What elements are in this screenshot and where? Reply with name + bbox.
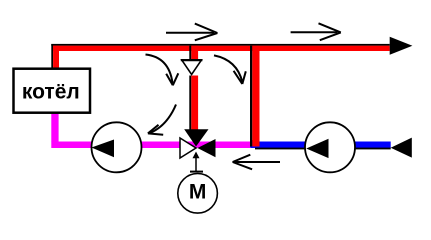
- wire boiler return magenta drop: [51, 114, 58, 142]
- wire boiler riser red pipe: [53, 46, 59, 68]
- pump P2 circle: [305, 122, 355, 172]
- wire bypass drop pipe upper black edge: [189, 46, 191, 60]
- arrowhead cold return inlet: [391, 138, 412, 158]
- flow arrow bottom left-pointing: [233, 155, 280, 170]
- svg-text:М: М: [189, 181, 207, 204]
- wire second riser red over junction: [250, 140, 252, 147]
- wire cold return black bottom edge: [255, 148, 391, 150]
- mixing valve top port triangle: [184, 129, 208, 146]
- motor M circle: [178, 174, 218, 214]
- curved arrow left of check valve: [146, 55, 179, 86]
- arrowhead supply outlet: [390, 37, 413, 55]
- wire boiler riser black edge: [51, 44, 53, 68]
- wire supply top black edge: [51, 44, 389, 46]
- curved arrow right of check valve: [214, 55, 246, 84]
- pump P1 impeller triangle: [92, 140, 115, 158]
- wire second riser red: [252, 46, 259, 147]
- wire bypass drop pipe lower red: [191, 76, 198, 132]
- check valve top bar: [181, 59, 203, 61]
- flow arrow top right: [291, 23, 341, 40]
- curved arrow valve to pump: [148, 105, 176, 135]
- flow arrow top middle: [166, 24, 217, 41]
- check valve: [182, 60, 202, 74]
- wire bypass drop pipe upper red: [191, 46, 198, 60]
- pump P1 circle: [92, 122, 142, 172]
- wire supply top red pipe: [53, 46, 390, 51]
- mixing valve stem arrow: [193, 152, 200, 159]
- svg-text:котёл: котёл: [22, 81, 80, 104]
- wire cold return blue pipe: [250, 142, 390, 149]
- mixing valve left port triangle: [180, 138, 196, 158]
- wire bypass drop pipe lower black edge: [189, 76, 191, 132]
- boiler box: [14, 69, 91, 113]
- mixing valve right port triangle: [198, 139, 216, 157]
- pump P2 impeller triangle: [306, 139, 328, 158]
- wire second riser black edge: [250, 46, 252, 147]
- wire mixed return magenta run: [51, 142, 250, 149]
- mixing valve stem tick: [190, 171, 203, 173]
- mixing valve stem: [195, 157, 197, 171]
